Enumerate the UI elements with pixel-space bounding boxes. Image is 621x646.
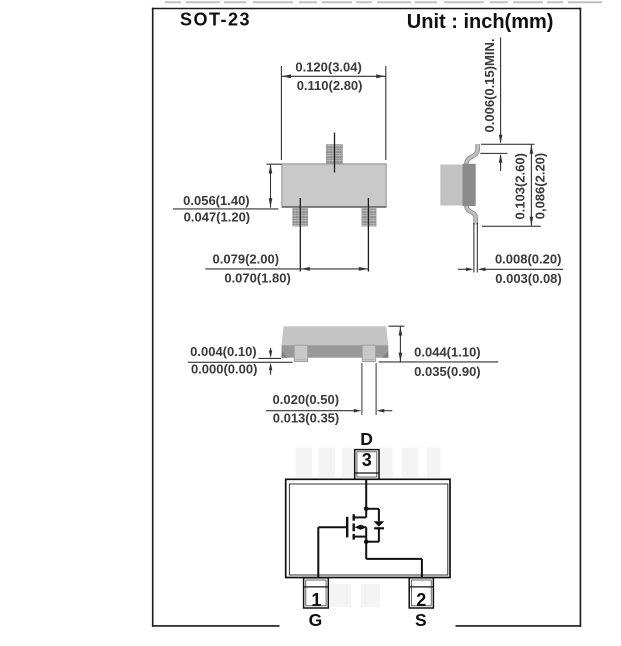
svg-text:0.044(1.10): 0.044(1.10) [414, 345, 481, 360]
svg-text:3: 3 [362, 450, 372, 470]
svg-text:0.110(2.80): 0.110(2.80) [297, 78, 363, 93]
svg-text:2: 2 [416, 590, 426, 610]
svg-text:0.003(0.08): 0.003(0.08) [495, 271, 562, 286]
svg-text:S: S [415, 610, 427, 630]
svg-text:0.070(1.80): 0.070(1.80) [224, 270, 291, 285]
svg-text:D: D [360, 429, 373, 449]
svg-text:0.047(1.20): 0.047(1.20) [184, 210, 251, 225]
svg-text:G: G [309, 610, 323, 630]
svg-text:0.120(3.04): 0.120(3.04) [295, 59, 362, 74]
svg-text:0.056(1.40): 0.056(1.40) [183, 193, 250, 208]
svg-text:0.006(0.15)MIN.: 0.006(0.15)MIN. [482, 39, 497, 133]
svg-text:Unit : inch(mm): Unit : inch(mm) [407, 11, 554, 33]
svg-text:0.035(0.90): 0.035(0.90) [414, 364, 481, 379]
svg-text:0.020(0.50): 0.020(0.50) [273, 392, 340, 407]
svg-text:0.103(2.60): 0.103(2.60) [512, 153, 527, 220]
svg-text:SOT-23: SOT-23 [180, 10, 251, 30]
svg-text:0.000(0.00): 0.000(0.00) [191, 362, 258, 377]
svg-text:0.008(0.20): 0.008(0.20) [495, 252, 562, 267]
svg-text:1: 1 [311, 590, 321, 610]
svg-text:0,086(2.20): 0,086(2.20) [532, 153, 547, 220]
svg-text:0.004(0.10): 0.004(0.10) [190, 344, 257, 359]
svg-text:0.079(2.00): 0.079(2.00) [213, 252, 280, 267]
svg-text:0.013(0.35): 0.013(0.35) [273, 410, 340, 425]
